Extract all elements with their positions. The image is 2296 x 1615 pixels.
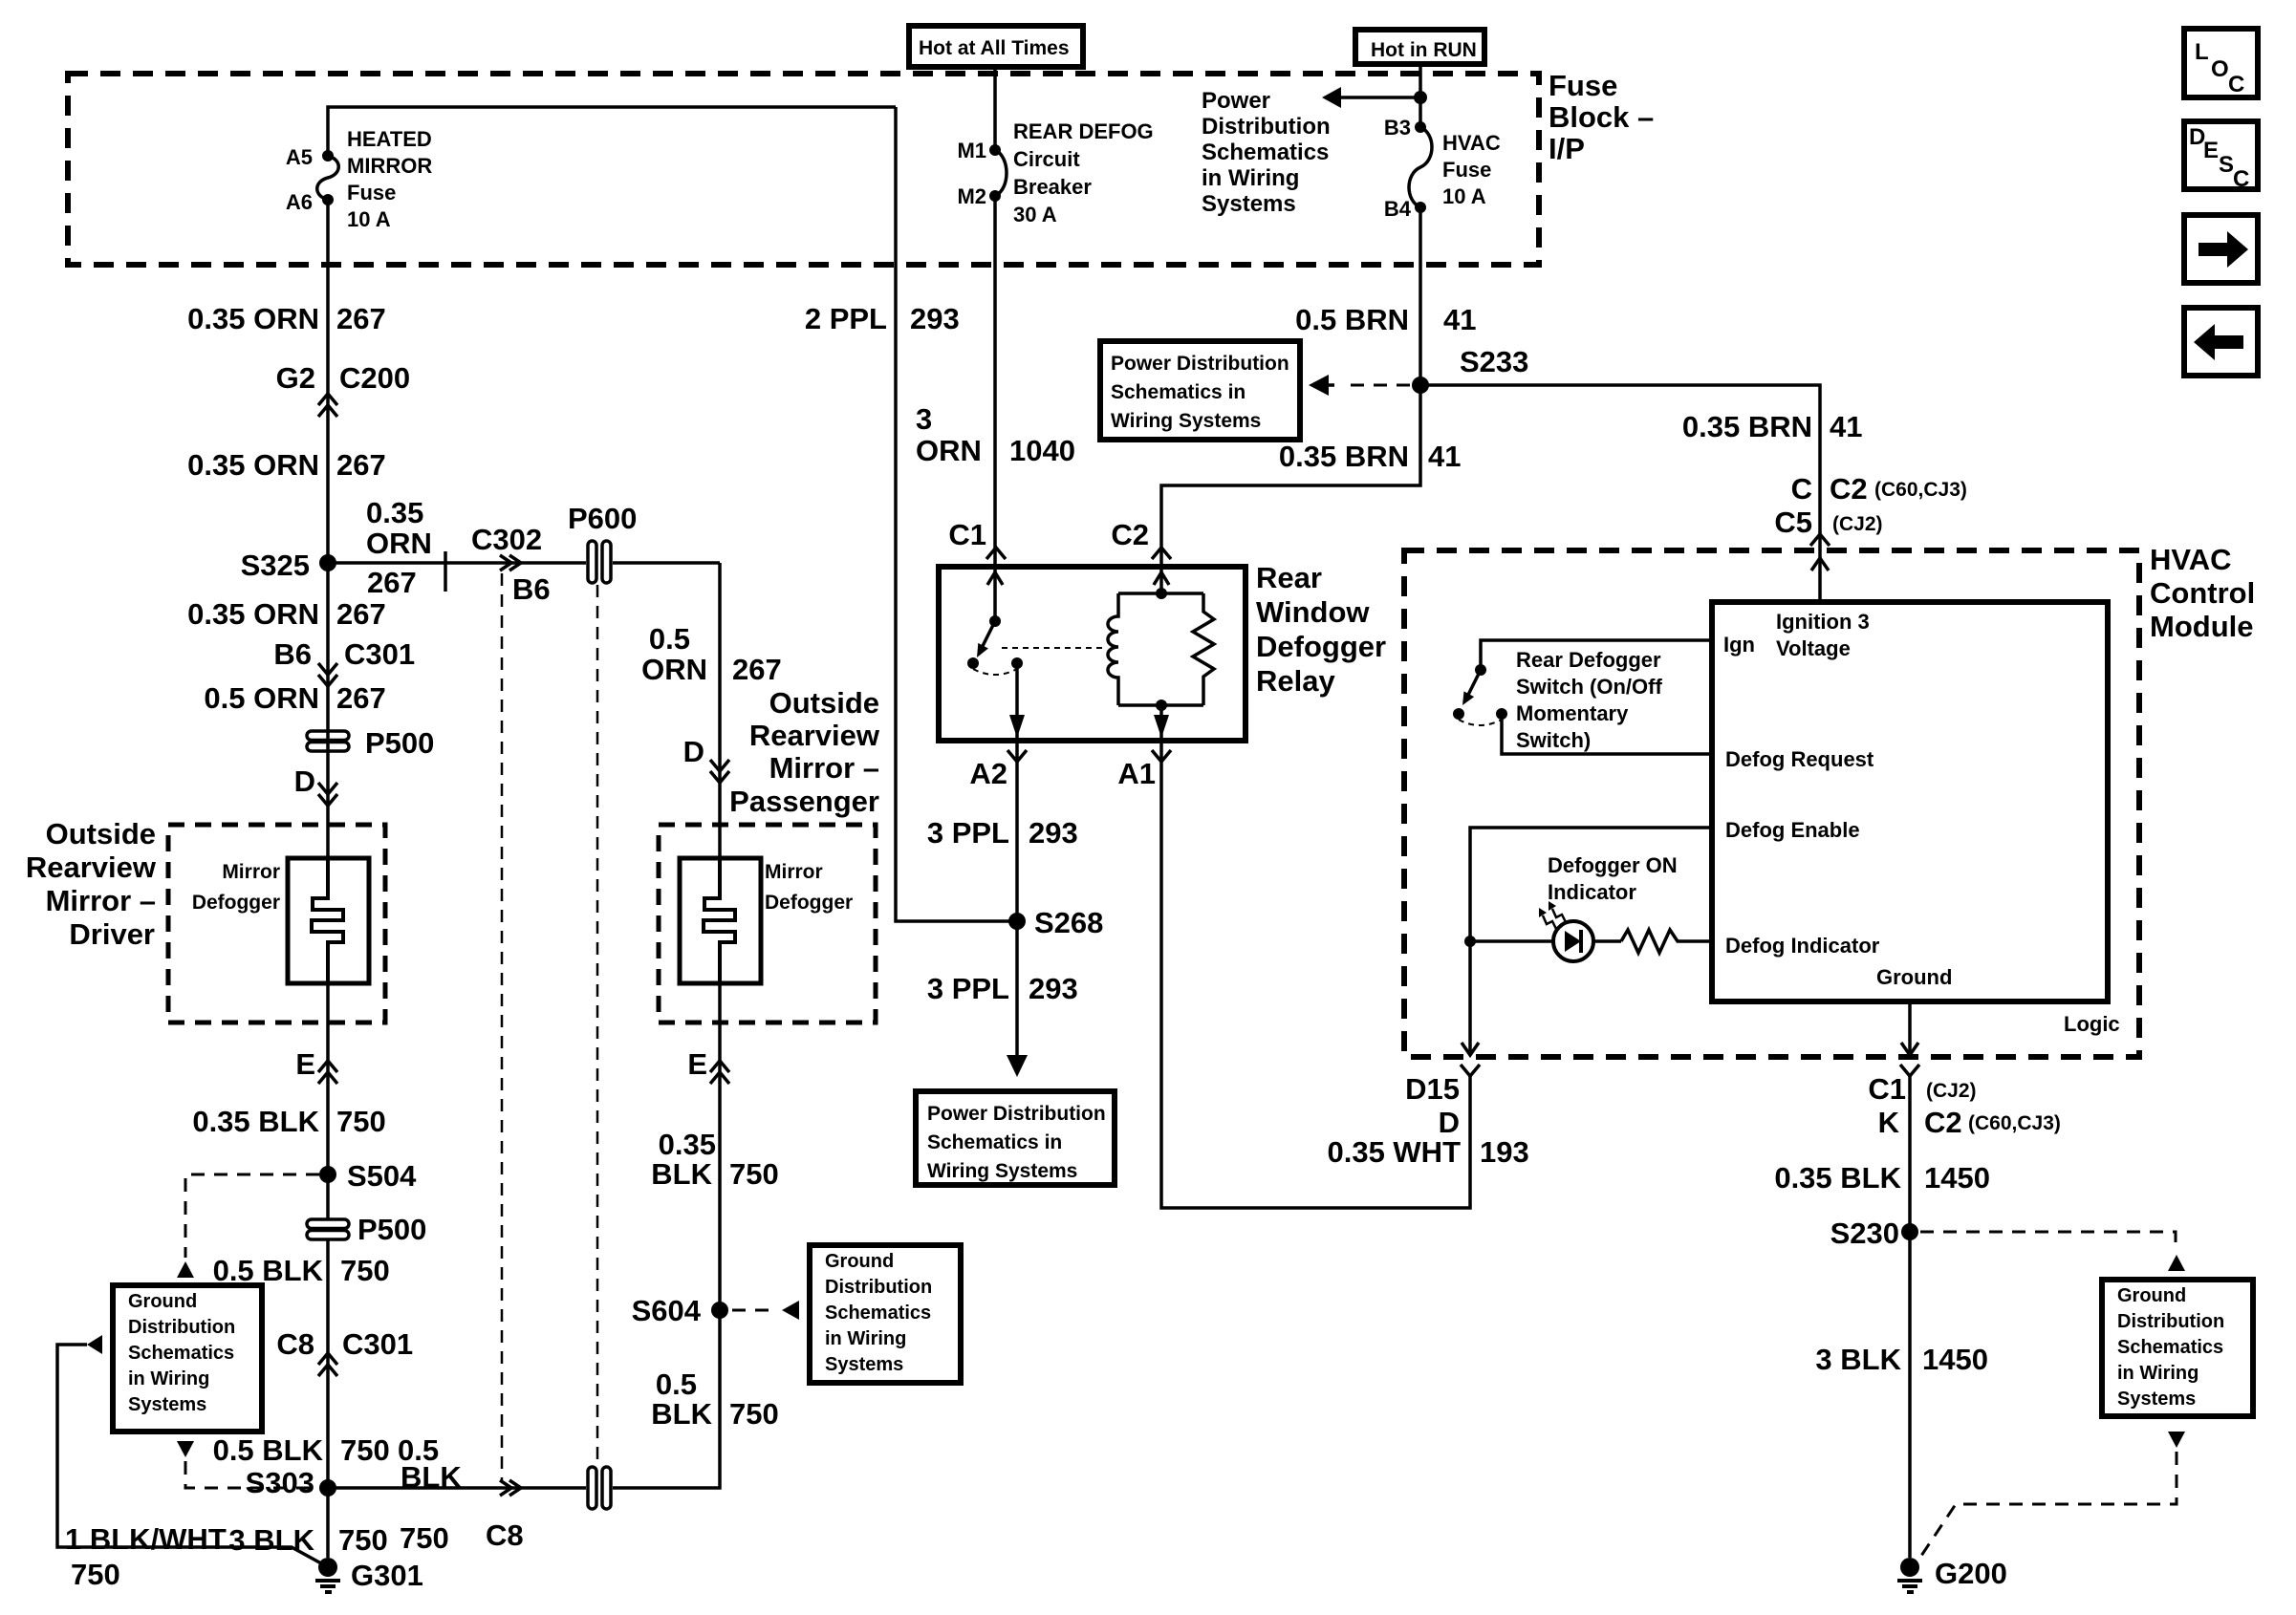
svg-text:Ignition 3: Ignition 3 (1776, 610, 1870, 634)
svg-text:Systems: Systems (128, 1394, 206, 1415)
label 0.35 BRN 41 (left) (1279, 440, 1462, 473)
left column: wire A6 down to S325 (326, 200, 330, 563)
svg-text:0.35 BRN: 0.35 BRN (1682, 410, 1812, 443)
icon LOC box (2184, 29, 2258, 97)
label 0.35 ORN 267 (187, 597, 386, 631)
svg-text:D15: D15 (1405, 1072, 1460, 1106)
label 0.35 WHT 193 (1327, 1135, 1528, 1169)
svg-text:BLK: BLK (651, 1157, 712, 1191)
svg-text:S268: S268 (1034, 906, 1103, 939)
svg-text:41: 41 (1428, 440, 1461, 473)
terminal E (passenger) (687, 1047, 729, 1084)
relay C2 coil feed arrow (1154, 572, 1169, 585)
svg-text:Schematics: Schematics (1202, 140, 1329, 165)
wire B4 down 0.5 BRN 41 to S233 (1419, 207, 1422, 385)
svg-text:750: 750 (338, 1523, 388, 1557)
svg-text:(C60,CJ3): (C60,CJ3) (1968, 1112, 2061, 1134)
svg-text:(CJ2): (CJ2) (1832, 513, 1883, 535)
svg-text:MIRROR: MIRROR (347, 154, 432, 178)
svg-text:in Wiring: in Wiring (2117, 1363, 2199, 1384)
svg-text:Ground: Ground (825, 1251, 894, 1272)
label 0.5 BRN 41 (1295, 303, 1476, 336)
label 0.35 BLK 1450 (1774, 1161, 1990, 1195)
fuse block I/P dashed box (68, 74, 1539, 265)
passenger branch: label 0.5 ORN 267 (641, 622, 782, 686)
grommet P500 (lower) (307, 1174, 426, 1246)
mirror defogger label (driver) (192, 861, 280, 914)
svg-text:S: S (2219, 152, 2234, 178)
icon right arrow box (2184, 215, 2258, 283)
svg-text:S230: S230 (1830, 1217, 1899, 1250)
splice S504 (319, 1159, 417, 1193)
svg-text:C: C (2228, 72, 2244, 97)
label 0.5 BLK 750 (213, 1254, 390, 1287)
svg-text:293: 293 (1029, 972, 1078, 1005)
svg-text:Rearview: Rearview (26, 851, 157, 884)
svg-text:Outside: Outside (769, 686, 879, 720)
svg-text:A6: A6 (286, 190, 313, 214)
svg-text:Switch): Switch) (1516, 728, 1591, 752)
svg-text:Outside: Outside (46, 817, 156, 851)
svg-text:C8: C8 (486, 1518, 524, 1552)
terminal C1 (CJ2) / K C2 (1868, 1065, 2061, 1139)
svg-text:C301: C301 (344, 637, 415, 671)
svg-text:Mirror: Mirror (765, 861, 823, 883)
svg-text:1450: 1450 (1922, 1343, 1988, 1376)
svg-text:Schematics in: Schematics in (927, 1131, 1062, 1153)
wire A2 down 3 PPL 293 through S268 (1015, 741, 1019, 1055)
svg-text:Rear: Rear (1256, 561, 1322, 594)
wire A1 down and right to HVAC D (1161, 741, 1470, 1208)
svg-text:Ign: Ign (1723, 633, 1755, 657)
breaker labels (957, 119, 1153, 226)
svg-text:A1: A1 (1117, 757, 1156, 790)
svg-text:S604: S604 (632, 1294, 702, 1327)
svg-text:Voltage: Voltage (1776, 636, 1851, 660)
dashed reference S604 to ground distribution box (732, 1301, 799, 1320)
svg-text:HEATED: HEATED (347, 127, 432, 151)
svg-text:G301: G301 (351, 1559, 423, 1592)
svg-text:41: 41 (1830, 410, 1862, 443)
svg-text:267: 267 (336, 448, 386, 482)
svg-text:Hot at All Times: Hot at All Times (919, 37, 1070, 59)
svg-text:Schematics: Schematics (825, 1303, 931, 1324)
passenger mirror dashed box (659, 825, 876, 1023)
wire M2 down 3 ORN 1040 to relay C1 (993, 196, 997, 567)
svg-text:Defogger: Defogger (192, 892, 280, 914)
svg-text:267: 267 (336, 681, 386, 715)
svg-text:C1: C1 (948, 518, 986, 551)
svg-text:Momentary: Momentary (1516, 701, 1629, 725)
mirror defogger element (driver) (288, 858, 369, 983)
svg-text:750: 750 (729, 1157, 779, 1191)
rear defogger switch label (1516, 648, 1662, 752)
svg-text:267: 267 (367, 566, 417, 599)
svg-text:P500: P500 (365, 726, 434, 760)
svg-text:0.35 WHT: 0.35 WHT (1327, 1135, 1461, 1169)
fuse HVAC 10A (1409, 121, 1432, 213)
wire 1 BLK/WHT 750 to G301 (57, 1335, 321, 1563)
svg-text:C5: C5 (1774, 506, 1812, 539)
relay switch C1 arm (967, 567, 1023, 675)
svg-text:B6: B6 (273, 637, 312, 671)
svg-text:C: C (2233, 166, 2249, 192)
resistor to defog indicator (1621, 930, 1712, 953)
svg-text:G200: G200 (1935, 1557, 2007, 1590)
label 0.35 ORN 267 (horizontal run) (366, 496, 445, 599)
svg-text:HVAC: HVAC (2150, 543, 2232, 576)
svg-text:750: 750 (729, 1397, 779, 1431)
svg-text:P600: P600 (568, 502, 637, 535)
svg-text:Rearview: Rearview (749, 719, 880, 752)
svg-text:0.5 BLK: 0.5 BLK (213, 1254, 324, 1287)
svg-text:E: E (295, 1047, 315, 1081)
grommet P500 (307, 726, 434, 760)
terminal A2 (969, 750, 1027, 790)
label 0.35 ORN 267 (187, 302, 386, 335)
svg-text:Wiring Systems: Wiring Systems (927, 1160, 1077, 1182)
terminal E (driver) (295, 1047, 337, 1084)
svg-text:Systems: Systems (2117, 1389, 2196, 1410)
svg-text:750: 750 (340, 1433, 390, 1467)
dashed grommet line P600 to P600 (596, 585, 599, 1467)
svg-text:C8: C8 (276, 1327, 314, 1361)
heated mirror fuse labels (286, 127, 432, 231)
wire S233 right to HVAC C5 (1420, 385, 1820, 602)
svg-text:Power Distribution: Power Distribution (927, 1103, 1106, 1125)
connector C8 C301 (276, 1327, 413, 1376)
svg-text:Indicator: Indicator (1548, 880, 1636, 904)
ground G301 (315, 1558, 423, 1592)
svg-text:Mirror –: Mirror – (769, 751, 879, 785)
dashed connector line C302 to C8 (501, 573, 504, 1480)
svg-text:Schematics in: Schematics in (1111, 381, 1245, 403)
icon left arrow box (2184, 308, 2258, 376)
dashed reference box to G200 (1921, 1432, 2185, 1556)
svg-text:Systems: Systems (1202, 191, 1296, 217)
splice S325 (241, 549, 336, 582)
svg-text:3 PPL: 3 PPL (927, 972, 1009, 1005)
svg-text:HVAC: HVAC (1442, 131, 1501, 155)
svg-text:Block –: Block – (1549, 100, 1654, 134)
svg-text:0.5: 0.5 (656, 1367, 697, 1401)
svg-text:BLK: BLK (401, 1460, 462, 1494)
splice S230 (1830, 1217, 1918, 1250)
outside rearview mirror driver heading (26, 817, 157, 951)
svg-text:0.35 ORN: 0.35 ORN (187, 302, 319, 335)
svg-text:Control: Control (2150, 576, 2255, 610)
svg-text:0.5: 0.5 (649, 622, 690, 656)
svg-text:Distribution: Distribution (825, 1277, 932, 1298)
label 3 BLK 750 (228, 1523, 387, 1557)
svg-text:C2: C2 (1924, 1106, 1962, 1139)
svg-text:B3: B3 (1384, 116, 1411, 140)
svg-text:750: 750 (71, 1558, 120, 1591)
svg-text:267: 267 (732, 653, 782, 686)
svg-text:ORN: ORN (641, 653, 707, 686)
terminal D15 / D (1405, 1065, 1480, 1139)
svg-text:Rear Defogger: Rear Defogger (1516, 648, 1661, 672)
svg-text:C302: C302 (471, 523, 542, 556)
wire arrow to power distribution (1336, 96, 1420, 99)
svg-text:193: 193 (1480, 1135, 1529, 1169)
label 0.35 BRN 41 (right) (1682, 410, 1863, 443)
svg-text:C1: C1 (1868, 1072, 1906, 1106)
svg-text:0.35 BRN: 0.35 BRN (1279, 440, 1409, 473)
wire S303 right to passenger mirror E (328, 983, 720, 1488)
dashed reference S504 to ground distribution box (177, 1174, 319, 1278)
relay coil and resistor (1108, 588, 1214, 711)
relay label (1256, 561, 1386, 698)
svg-text:1450: 1450 (1924, 1161, 1990, 1195)
terminal C2 (1111, 518, 1171, 559)
wire S325 down 0.35 ORN 267 to C301 (326, 563, 330, 858)
svg-text:Ground: Ground (2117, 1285, 2186, 1306)
svg-text:Hot in RUN: Hot in RUN (1371, 39, 1477, 61)
svg-text:Defog Request: Defog Request (1725, 747, 1874, 771)
svg-text:750: 750 (400, 1521, 449, 1555)
power distribution box (S233) (1100, 341, 1300, 440)
svg-text:Mirror: Mirror (222, 861, 280, 883)
svg-text:E: E (687, 1047, 707, 1081)
svg-text:41: 41 (1443, 303, 1476, 336)
HVAC fuse labels (1384, 116, 1501, 221)
svg-text:750: 750 (340, 1254, 390, 1287)
svg-text:Module: Module (2150, 610, 2254, 643)
relay A2 wire (1009, 663, 1025, 741)
svg-text:Circuit: Circuit (1013, 147, 1080, 171)
svg-text:2 PPL: 2 PPL (805, 302, 887, 335)
label 1 BLK/WHT 750 (65, 1522, 227, 1591)
svg-text:Fuse: Fuse (1549, 69, 1617, 102)
svg-text:Fuse: Fuse (347, 181, 396, 205)
svg-text:Mirror –: Mirror – (46, 884, 156, 917)
svg-text:Logic: Logic (2064, 1012, 2120, 1036)
svg-text:30 A: 30 A (1013, 203, 1057, 226)
svg-text:Wiring Systems: Wiring Systems (1111, 410, 1261, 432)
relay A1 wire (1154, 705, 1169, 741)
svg-text:B4: B4 (1384, 197, 1412, 221)
label 0.35 ORN 267 (187, 448, 386, 482)
svg-text:Distribution: Distribution (2117, 1311, 2224, 1332)
fuse block label (1549, 69, 1654, 165)
label 0.35 BLK 750 (passenger) (651, 1128, 778, 1191)
label 0.5 ORN 267 (204, 681, 385, 715)
driver mirror dashed box (168, 825, 385, 1023)
power distribution text (top) (1202, 88, 1331, 217)
svg-text:M2: M2 (957, 184, 986, 208)
wire A5 up and across to 2 PPL wire (328, 107, 896, 156)
terminal A1 (1117, 750, 1171, 790)
label 3 BLK 1450 (1815, 1343, 1988, 1376)
svg-text:C2: C2 (1111, 518, 1149, 551)
ground distribution box (left) (113, 1285, 262, 1432)
grommet P600 (lower) (588, 1467, 611, 1509)
svg-text:3: 3 (916, 402, 932, 436)
terminal C1 (948, 518, 1006, 559)
svg-text:0.35: 0.35 (366, 496, 423, 529)
node LED branch (1464, 936, 1476, 947)
svg-text:0.5 BRN: 0.5 BRN (1295, 303, 1409, 336)
mirror defogger element (passenger) (680, 858, 761, 983)
svg-text:10 A: 10 A (347, 207, 391, 231)
svg-text:S233: S233 (1460, 345, 1528, 378)
svg-text:Ground: Ground (1876, 965, 1952, 989)
svg-text:Window: Window (1256, 595, 1370, 629)
svg-text:Systems: Systems (825, 1354, 903, 1375)
svg-text:Power: Power (1202, 88, 1270, 114)
svg-text:BLK: BLK (651, 1397, 712, 1431)
svg-text:Breaker: Breaker (1013, 175, 1092, 199)
svg-text:K: K (1878, 1106, 1900, 1139)
svg-text:Defogger: Defogger (765, 892, 853, 914)
svg-text:G2: G2 (276, 361, 315, 395)
svg-text:Passenger: Passenger (729, 785, 879, 818)
label 3 PPL 293 (lower) (927, 972, 1078, 1005)
svg-text:293: 293 (910, 302, 960, 335)
svg-text:0.35: 0.35 (659, 1128, 716, 1161)
svg-text:267: 267 (336, 302, 386, 335)
splice S604 (632, 1294, 728, 1327)
svg-text:Defog Enable: Defog Enable (1725, 818, 1860, 842)
svg-text:in Wiring: in Wiring (825, 1328, 906, 1349)
label 0.5 BLK 750 (horizontal run) (398, 1433, 462, 1555)
defog enable wire with LED branch (1470, 828, 1712, 1055)
svg-text:Defogger ON: Defogger ON (1548, 853, 1678, 877)
connector C8 (horizontal) (486, 1480, 524, 1552)
svg-text:Distribution: Distribution (128, 1317, 235, 1338)
arrow to power distribution (bottom) (1007, 1055, 1028, 1077)
svg-text:C200: C200 (339, 361, 410, 395)
svg-text:O: O (2211, 56, 2229, 82)
connector G2 C200 (276, 361, 410, 417)
LED indicator (1470, 921, 1621, 961)
svg-text:0.35 BLK: 0.35 BLK (1774, 1161, 1901, 1195)
ground distribution box (center) (810, 1245, 961, 1383)
grommet P600 (568, 502, 637, 583)
node arrow branch junction (1414, 91, 1427, 104)
svg-text:in Wiring: in Wiring (128, 1368, 209, 1389)
svg-text:267: 267 (336, 597, 386, 631)
svg-text:Driver: Driver (69, 917, 155, 951)
svg-text:Relay: Relay (1256, 664, 1335, 698)
wire down to S303 (326, 1239, 330, 1558)
svg-text:D: D (683, 735, 704, 768)
module pin labels (1723, 610, 1952, 989)
wire S233 down 0.35 BRN 41 to relay C2 (1161, 385, 1420, 593)
ground G200 (1897, 1557, 2007, 1592)
svg-text:M1: M1 (957, 139, 986, 162)
svg-text:1 BLK/WHT: 1 BLK/WHT (65, 1522, 227, 1556)
svg-text:Distribution: Distribution (1202, 114, 1331, 140)
svg-text:C: C (1791, 472, 1812, 506)
svg-text:Ground: Ground (128, 1291, 197, 1312)
wire S325 right to passenger mirror (328, 561, 720, 565)
svg-text:P500: P500 (357, 1213, 426, 1246)
svg-text:A2: A2 (969, 757, 1007, 790)
connector C302 B6 (471, 523, 551, 606)
svg-text:0.35 ORN: 0.35 ORN (187, 597, 319, 631)
svg-text:Schematics: Schematics (2117, 1337, 2223, 1358)
wire Hot at All Times down to M1 (993, 67, 997, 150)
svg-text:(C60,CJ3): (C60,CJ3) (1874, 479, 1967, 501)
rear defogger switch (1453, 640, 1712, 754)
fuse HEATED MIRROR 10A (317, 150, 339, 205)
HVAC logic box (1712, 602, 2108, 1001)
Hot at All Times box (909, 26, 1083, 67)
svg-text:Power Distribution: Power Distribution (1111, 353, 1289, 375)
svg-text:3 PPL: 3 PPL (927, 816, 1009, 850)
HVAC control module dashed box (1404, 550, 2139, 1057)
outside rearview mirror passenger heading (729, 686, 880, 818)
terminal D (passenger) (683, 735, 729, 783)
svg-text:D: D (1439, 1106, 1460, 1139)
wire passenger D down into element (718, 563, 722, 858)
terminal C C2 / C5 into HVAC (1774, 472, 1967, 571)
svg-text:L: L (2195, 39, 2209, 65)
svg-text:REAR DEFOG: REAR DEFOG (1013, 119, 1154, 143)
svg-text:Fuse: Fuse (1442, 158, 1491, 182)
label 2 PPL 293 (805, 302, 960, 335)
svg-text:0.35 ORN: 0.35 ORN (187, 448, 319, 482)
connector B6 C301 (273, 637, 415, 686)
label 0.5 BLK 750 (passenger lower) (651, 1367, 778, 1431)
splice S233 (1412, 345, 1528, 394)
svg-text:Schematics: Schematics (128, 1343, 234, 1364)
label 0.35 BLK 750 (192, 1105, 385, 1138)
svg-text:3 BLK: 3 BLK (1815, 1343, 1901, 1376)
svg-text:E: E (2203, 138, 2219, 163)
relay coil control dashed (1002, 647, 1105, 649)
Hot in RUN box (1355, 30, 1484, 64)
svg-text:A5: A5 (286, 145, 313, 169)
rear window defogger relay box (939, 567, 1245, 741)
wire 2 PPL 293 down to S268 (896, 107, 1017, 921)
label 3 ORN 1040 (916, 402, 1075, 467)
svg-text:B6: B6 (512, 572, 551, 606)
mirror defogger label (passenger) (765, 861, 853, 914)
ground pin wire down (1908, 1001, 1912, 1055)
splice S303 (246, 1466, 336, 1499)
svg-text:Switch (On/Off: Switch (On/Off (1516, 675, 1662, 699)
svg-text:S325: S325 (241, 549, 310, 582)
HVAC heading (2150, 543, 2255, 643)
LED light arrows (1539, 901, 1567, 931)
svg-text:Defog Indicator: Defog Indicator (1725, 934, 1880, 958)
dashed reference from S233 to power distribution box (1309, 375, 1410, 396)
svg-text:0.5 BLK: 0.5 BLK (213, 1433, 324, 1467)
label 0.5 BLK 750 (lower) (213, 1433, 390, 1467)
splice S268 (1008, 906, 1103, 939)
wire Hot in RUN down to B3 (1419, 64, 1422, 127)
svg-text:(CJ2): (CJ2) (1926, 1080, 1977, 1102)
svg-text:0.5 ORN: 0.5 ORN (204, 681, 319, 715)
svg-text:750: 750 (336, 1105, 386, 1138)
svg-text:10 A: 10 A (1442, 184, 1486, 208)
defogger ON indicator label (1548, 853, 1678, 904)
wire 0.35 BLK 1450 to S230 (1908, 1076, 1912, 1558)
dashed reference box to S303 (177, 1441, 315, 1488)
svg-text:in Wiring: in Wiring (1202, 165, 1299, 191)
terminal D (driver) (294, 764, 337, 806)
svg-text:I/P: I/P (1549, 132, 1585, 165)
dashed reference S230 to ground distribution box (right) (1920, 1232, 2185, 1271)
ground distribution box (right) (2102, 1280, 2253, 1416)
svg-text:293: 293 (1029, 816, 1078, 850)
svg-text:C2: C2 (1830, 472, 1868, 506)
svg-text:1040: 1040 (1009, 434, 1075, 467)
svg-text:S303: S303 (246, 1466, 314, 1499)
